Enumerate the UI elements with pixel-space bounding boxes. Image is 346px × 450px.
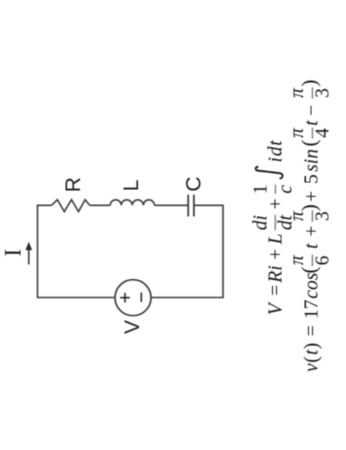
svg-text:t: t <box>302 120 323 126</box>
svg-text:(: ( <box>302 356 323 363</box>
svg-text:5: 5 <box>302 174 323 184</box>
wire top + left upper + right upper <box>38 205 116 297</box>
svg-text:I: I <box>1 249 26 257</box>
svg-text:v: v <box>302 363 323 372</box>
svg-text:π: π <box>287 254 308 265</box>
plus sign in source <box>120 293 130 303</box>
svg-text:): ) <box>302 343 323 350</box>
resistor R1 zigzag <box>52 200 90 212</box>
svg-text:c: c <box>276 185 297 194</box>
wire inductor to capacitor <box>154 204 188 206</box>
svg-text:17: 17 <box>302 299 323 319</box>
svg-text:V: V <box>121 320 144 334</box>
svg-text:3: 3 <box>312 88 333 98</box>
current arrow <box>28 248 30 265</box>
svg-text:+: + <box>265 198 286 209</box>
svg-text:C: C <box>183 176 206 191</box>
inductor L1 coils <box>110 200 154 206</box>
svg-text:cos: cos <box>302 273 323 299</box>
svg-text:di: di <box>250 215 271 230</box>
svg-text:V: V <box>265 301 286 315</box>
svg-text:6: 6 <box>312 255 333 265</box>
capacitor C1 plate 1 <box>187 195 189 217</box>
svg-text:Ri: Ri <box>265 265 286 283</box>
svg-text:1: 1 <box>250 184 271 194</box>
svg-text:π: π <box>287 127 308 138</box>
svg-text:+: + <box>302 226 323 237</box>
svg-text:4: 4 <box>312 128 333 138</box>
svg-text:+: + <box>302 191 323 202</box>
svg-text:3: 3 <box>312 211 333 221</box>
wire resistor to inductor <box>90 204 111 206</box>
svg-text:t: t <box>302 243 323 249</box>
capacitor C1 plate 2 <box>193 195 195 217</box>
svg-text:R: R <box>62 177 85 192</box>
svg-text:(: ( <box>297 267 321 274</box>
svg-text:=: = <box>302 325 323 336</box>
wire capacitor to bottom + bottom wire + left lower <box>151 205 223 297</box>
svg-text:L: L <box>265 233 286 245</box>
integral sign <box>256 167 283 179</box>
svg-text:−: − <box>302 105 323 116</box>
svg-text:): ) <box>297 80 321 87</box>
svg-text:+: + <box>265 249 286 260</box>
voltage source V circle <box>115 280 151 316</box>
minus sign in source <box>140 293 142 302</box>
svg-text:L: L <box>120 180 143 192</box>
svg-text:): ) <box>297 204 321 211</box>
svg-text:=: = <box>265 285 286 296</box>
svg-text:π: π <box>287 87 308 98</box>
svg-text:(: ( <box>297 140 321 147</box>
svg-text:idt: idt <box>265 140 286 163</box>
svg-text:sin: sin <box>302 149 323 172</box>
